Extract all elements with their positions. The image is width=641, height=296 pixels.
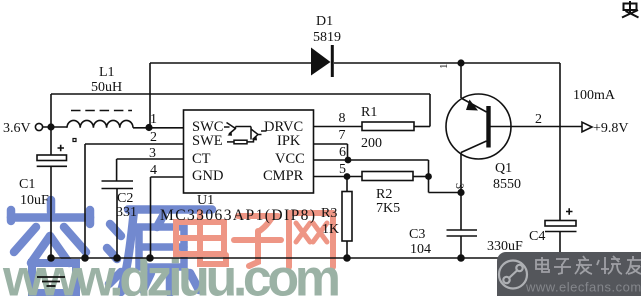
svg-text:3: 3 <box>149 146 156 161</box>
svg-text:www.elecfans.com: www.elecfans.com <box>525 280 641 295</box>
svg-text:8: 8 <box>339 111 346 126</box>
svg-text:Q1: Q1 <box>495 161 512 176</box>
svg-text:10uF: 10uF <box>20 193 49 208</box>
svg-text:104: 104 <box>410 242 431 257</box>
svg-text:C1: C1 <box>19 177 35 192</box>
svg-text:1: 1 <box>438 64 450 70</box>
svg-text:+9.8V: +9.8V <box>593 121 629 136</box>
svg-text:C3: C3 <box>409 227 425 242</box>
svg-text:1: 1 <box>150 112 157 127</box>
svg-text:C4: C4 <box>529 229 545 244</box>
svg-text:U1: U1 <box>197 193 214 208</box>
svg-text:331: 331 <box>116 205 137 220</box>
svg-text:R1: R1 <box>361 105 377 120</box>
svg-text:3: 3 <box>453 183 467 189</box>
svg-text:R3: R3 <box>321 206 337 221</box>
svg-text:100mA: 100mA <box>573 88 616 103</box>
svg-text:R2: R2 <box>376 187 392 202</box>
svg-text:5819: 5819 <box>313 30 341 45</box>
svg-text:8550: 8550 <box>493 177 521 192</box>
svg-text:CMPR: CMPR <box>263 168 304 184</box>
svg-text:IPK: IPK <box>277 133 301 149</box>
svg-text:5: 5 <box>339 162 346 177</box>
svg-text:VCC: VCC <box>275 151 305 167</box>
svg-text:1K: 1K <box>322 222 339 237</box>
svg-text:7: 7 <box>339 128 346 143</box>
svg-text:SWE: SWE <box>192 133 223 149</box>
svg-text:4: 4 <box>150 163 157 178</box>
svg-text:MC33063AP1(DIP8): MC33063AP1(DIP8) <box>160 207 315 224</box>
svg-text:2: 2 <box>150 130 157 145</box>
svg-text:2: 2 <box>535 112 542 127</box>
svg-text:3.6V: 3.6V <box>3 121 31 136</box>
svg-text:L1: L1 <box>99 65 115 80</box>
svg-text:200: 200 <box>361 136 382 151</box>
svg-text:330uF: 330uF <box>487 239 523 254</box>
svg-text:6: 6 <box>339 145 346 160</box>
svg-text:C2: C2 <box>117 191 133 206</box>
svg-text:7K5: 7K5 <box>376 201 400 216</box>
svg-text:50uH: 50uH <box>91 80 122 95</box>
svg-text:D1: D1 <box>316 14 333 29</box>
svg-text:CT: CT <box>192 151 211 167</box>
svg-text:GND: GND <box>192 168 223 184</box>
